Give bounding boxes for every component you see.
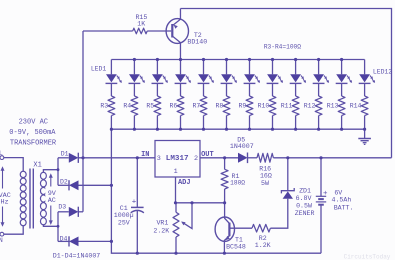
svg-text:R12: R12	[304, 103, 316, 110]
svg-text:R9: R9	[238, 103, 246, 110]
svg-text:ADJ: ADJ	[178, 179, 191, 187]
svg-text:ZENER: ZENER	[295, 210, 315, 217]
svg-text:N: N	[0, 237, 3, 244]
svg-text:IN: IN	[141, 151, 149, 159]
svg-text:180Ω: 180Ω	[230, 179, 245, 186]
svg-text:230V AC: 230V AC	[19, 119, 48, 127]
svg-text:3: 3	[157, 155, 161, 163]
svg-text:BC548: BC548	[226, 243, 246, 250]
svg-text:R4: R4	[123, 103, 131, 110]
svg-text:AC: AC	[48, 197, 56, 205]
svg-text:6.8V: 6.8V	[296, 195, 312, 202]
svg-text:BD140: BD140	[187, 39, 207, 46]
svg-text:D3: D3	[58, 204, 66, 211]
svg-text:R2: R2	[259, 235, 267, 242]
svg-text:1.2K: 1.2K	[255, 242, 271, 249]
svg-text:R16: R16	[259, 165, 271, 172]
svg-text:2.2K: 2.2K	[153, 228, 169, 235]
svg-text:LED1: LED1	[91, 65, 107, 72]
svg-text:+: +	[132, 199, 137, 207]
svg-text:D1: D1	[61, 151, 69, 158]
svg-text:R14: R14	[350, 103, 362, 110]
svg-text:16Ω: 16Ω	[260, 173, 272, 180]
svg-text:R8: R8	[215, 103, 223, 110]
svg-text:D2: D2	[60, 178, 68, 185]
svg-text:4.5Ah: 4.5Ah	[332, 197, 352, 204]
svg-text:1N4007: 1N4007	[230, 143, 254, 150]
svg-text:25V: 25V	[118, 220, 130, 227]
svg-text:2: 2	[194, 155, 198, 163]
svg-text:LED12: LED12	[373, 69, 392, 76]
svg-text:R10: R10	[258, 103, 270, 110]
svg-text:D4: D4	[60, 235, 68, 242]
svg-text:1000µ: 1000µ	[114, 212, 134, 219]
svg-text:50Hz: 50Hz	[0, 199, 9, 207]
svg-text:CircuitsToday: CircuitsToday	[344, 253, 391, 260]
svg-text:R5: R5	[146, 103, 154, 110]
svg-text:X1: X1	[33, 161, 41, 169]
svg-text:R3-R4=100Ω: R3-R4=100Ω	[264, 43, 301, 50]
svg-text:0.5W: 0.5W	[296, 202, 312, 209]
svg-text:1: 1	[174, 168, 178, 176]
svg-text:6V: 6V	[334, 189, 342, 196]
svg-text:D1-D4=1N4007: D1-D4=1N4007	[53, 252, 101, 259]
svg-text:BATT.: BATT.	[334, 205, 354, 212]
svg-text:L: L	[0, 150, 3, 157]
svg-text:R6: R6	[169, 103, 177, 110]
svg-text:LM317: LM317	[166, 155, 189, 163]
svg-text:R3: R3	[100, 103, 108, 110]
svg-text:+: +	[323, 190, 328, 198]
svg-text:C1: C1	[120, 205, 128, 212]
svg-text:R11: R11	[281, 103, 293, 110]
svg-text:5W: 5W	[261, 180, 269, 187]
svg-text:VR1: VR1	[156, 220, 168, 227]
svg-text:R13: R13	[327, 103, 339, 110]
svg-text:TRANSFORMER: TRANSFORMER	[10, 140, 57, 148]
svg-text:OUT: OUT	[201, 151, 214, 159]
svg-text:ZD1: ZD1	[299, 188, 311, 195]
svg-text:R7: R7	[192, 103, 200, 110]
svg-text:1K: 1K	[137, 20, 145, 27]
svg-text:0-9V, 500mA: 0-9V, 500mA	[9, 129, 56, 137]
